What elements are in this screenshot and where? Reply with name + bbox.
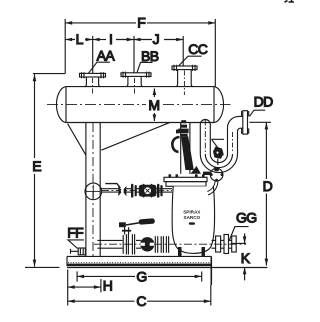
relief valve flag — [212, 139, 225, 155]
svg-text:SARCO: SARCO — [184, 215, 201, 220]
leader AA — [89, 62, 111, 73]
svg-text:L: L — [76, 31, 84, 47]
svg-text:C: C — [136, 293, 146, 309]
suction line centerline — [102, 189, 172, 191]
wire extension line AA — [92, 36, 94, 73]
svg-text:H: H — [103, 277, 113, 293]
wire extension line left (tank tangent) — [64, 19, 66, 74]
nozzle AA centerline — [92, 78, 94, 95]
sarco logo dash — [189, 222, 195, 224]
gate valve lever rod — [126, 223, 140, 225]
svg-text:K: K — [241, 250, 251, 266]
U-bend — [200, 154, 237, 173]
ball valve handle — [105, 184, 120, 188]
dark wedge on pump cover — [191, 166, 202, 174]
vent pipe with cap — [200, 120, 210, 155]
wire extension line right (tank tangent) — [214, 19, 216, 87]
C left extension — [67, 270, 69, 306]
inlet valve hook handle — [172, 137, 179, 152]
base stipple — [68, 262, 211, 264]
suction line thin pipe — [102, 189, 173, 192]
wire L-I-J dimension line — [65, 38, 183, 42]
gate valve flanges — [123, 234, 134, 254]
brace gusset left — [68, 124, 86, 156]
leader CC — [179, 56, 202, 66]
leader DD — [250, 110, 266, 116]
wire E bottom extension line — [25, 266, 59, 268]
svg-text:E: E — [32, 158, 41, 174]
wire extension line BB — [133, 36, 135, 73]
svg-text:J: J — [153, 31, 159, 47]
svg-text:SPIRAX: SPIRAX — [183, 209, 201, 214]
pump cover plates — [164, 174, 207, 186]
bottom check valve — [140, 238, 154, 251]
svg-text:CC: CC — [188, 41, 208, 57]
support leg left — [86, 123, 100, 257]
discharge flange set GG — [216, 235, 237, 254]
pump feet supports — [178, 247, 205, 256]
base skid — [67, 256, 212, 285]
nozzle BB — [121, 72, 151, 87]
pump vessel body — [172, 186, 214, 253]
wire E top extension line — [33, 73, 65, 75]
wire F dimension line — [65, 21, 215, 25]
wire E dimension line — [33, 74, 37, 266]
D top extension — [249, 121, 271, 123]
FF drain fitting — [71, 248, 86, 255]
pump inlet column pipes — [181, 123, 190, 174]
discharge circle flange — [210, 167, 224, 181]
nozzle AA — [80, 72, 106, 86]
gate valve stem yoke — [122, 227, 131, 234]
D dimension line — [265, 122, 269, 265]
inlet valve dark column — [181, 136, 194, 170]
relief valve dark blob — [213, 147, 224, 159]
leader FF — [68, 240, 84, 249]
label SPIRAX SARCO — [183, 209, 201, 220]
suction flange left — [131, 184, 137, 198]
G dimension — [77, 271, 202, 281]
H dimension — [68, 279, 101, 292]
discharge elbow into vessel — [207, 181, 218, 195]
M diameter dimension — [153, 88, 157, 122]
inlet valve top stack — [176, 120, 189, 136]
vent pipe centerline — [204, 120, 206, 154]
riser to DD — [228, 116, 243, 154]
leg centerline — [92, 123, 94, 256]
ball valve dark — [118, 186, 126, 197]
suction flange right — [157, 184, 163, 198]
nozzle CC — [172, 65, 197, 87]
tank centerline — [47, 104, 231, 106]
corner crop mark top right — [285, 0, 295, 2]
C right extension — [210, 285, 212, 306]
bottom pipe centerline — [94, 243, 246, 245]
bottom pipe — [97, 240, 231, 248]
svg-text:F: F — [137, 15, 145, 31]
bottom pipe flanges mid — [155, 236, 168, 253]
svg-text:M: M — [148, 97, 159, 113]
suction check valve — [139, 184, 157, 197]
svg-text:G: G — [136, 268, 146, 284]
floor line — [67, 267, 267, 269]
riser centerline — [232, 132, 234, 152]
short dark pipe to circle — [203, 172, 212, 175]
svg-text:D: D — [263, 178, 273, 194]
svg-text:BB: BB — [141, 48, 159, 64]
brace strut right — [101, 122, 170, 150]
gate valve lever block — [119, 222, 126, 227]
svg-text:AA: AA — [97, 47, 116, 63]
wire extension line CC — [182, 36, 184, 66]
svg-text:FF: FF — [67, 224, 83, 240]
gate valve lever paddle — [139, 218, 155, 225]
C dimension — [68, 299, 211, 303]
leader BB — [137, 62, 153, 72]
svg-text:DD: DD — [254, 94, 274, 110]
leader GG — [229, 227, 248, 241]
leg pipe circle — [85, 183, 102, 200]
svg-text:I: I — [109, 31, 112, 47]
tank shell — [56, 87, 223, 123]
nozzle BB centerline — [134, 78, 136, 95]
nozzle CC centerline — [183, 71, 185, 96]
relief valve stub — [217, 159, 219, 166]
DD flange — [242, 111, 249, 134]
svg-text:GG: GG — [236, 209, 257, 225]
K dimension — [231, 234, 247, 281]
